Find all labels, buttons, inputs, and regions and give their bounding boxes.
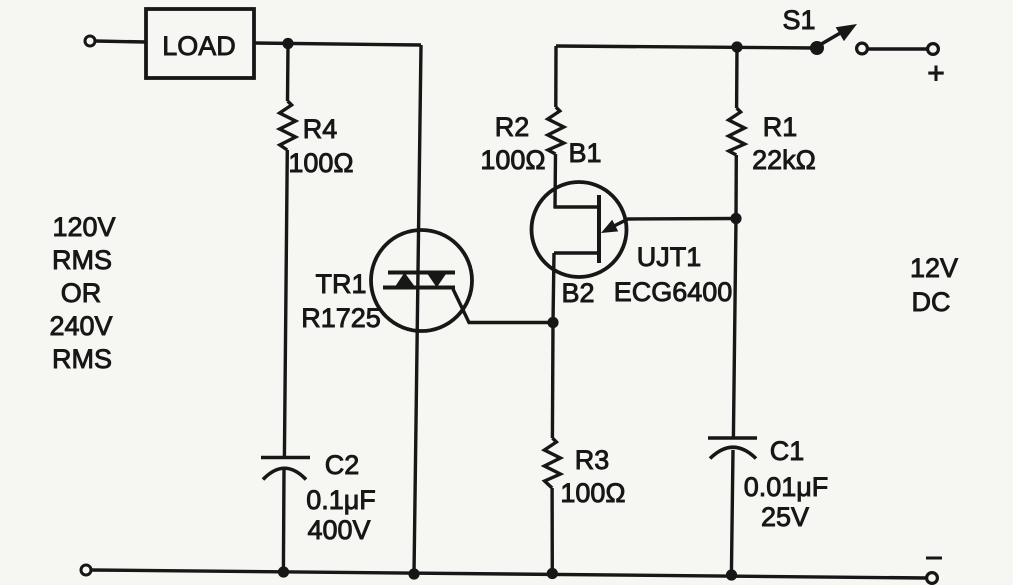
terminal: + DC input <box>928 44 939 55</box>
resistor R4 <box>280 101 354 178</box>
svg-text:UJT1: UJT1 <box>637 242 702 272</box>
wire: R1 top lead <box>735 47 739 108</box>
label: 12V DC <box>910 253 958 317</box>
wire: triac main vertical MT2-MT1 <box>414 45 421 574</box>
wire: R4 to C2 <box>284 150 287 457</box>
wire: C2 to bottom rail <box>282 470 286 572</box>
node: junction gate / B2 / R3 <box>547 317 558 328</box>
label: minus sign <box>926 557 942 560</box>
wire: triac gate to junction <box>453 289 553 323</box>
terminal: AC input top-left <box>85 36 95 46</box>
wire: junction down to C1 <box>733 219 736 438</box>
svg-text:100Ω: 100Ω <box>560 478 625 508</box>
terminal: bottom-right DC return <box>927 573 938 584</box>
wire: UJT emitter to R1 junction <box>612 219 737 228</box>
svg-text:R1: R1 <box>763 112 798 142</box>
node: junction emitter / R1 / C1 branch <box>730 213 741 224</box>
capacitor C2 <box>261 450 376 545</box>
wire: R2 top lead <box>554 46 558 107</box>
wire: bottom rail <box>91 570 927 578</box>
node: junction C1 / bottom rail <box>726 569 737 580</box>
svg-text:100Ω: 100Ω <box>480 145 545 175</box>
node: junction top rail / R1 <box>731 41 742 52</box>
svg-text:120V: 120V <box>52 212 115 242</box>
svg-text:R2: R2 <box>495 112 530 142</box>
svg-text:TR1: TR1 <box>315 269 366 299</box>
capacitor C1 <box>708 436 828 532</box>
svg-text:240V: 240V <box>49 311 112 341</box>
svg-text:100Ω: 100Ω <box>288 148 353 178</box>
svg-text:S1: S1 <box>782 5 815 35</box>
wire: top rail right (R2 top to switch) <box>556 46 817 48</box>
wire: AC terminal to LOAD <box>95 41 146 42</box>
resistor R2 <box>480 107 563 175</box>
load box LOAD <box>146 9 254 78</box>
svg-text:400V: 400V <box>307 515 370 545</box>
emitter arrowhead <box>601 220 618 233</box>
terminal: bottom-left AC return <box>81 565 91 575</box>
svg-text:OR: OR <box>61 278 102 308</box>
svg-text:C2: C2 <box>325 450 360 480</box>
wire: C1 to bottom rail <box>731 450 733 575</box>
wire: R4 top lead <box>286 44 290 101</box>
svg-text:B2: B2 <box>561 278 594 308</box>
resistor R3 <box>544 438 625 508</box>
wire: R3 to bottom rail <box>550 488 554 573</box>
svg-text:DC: DC <box>912 287 951 317</box>
svg-text:LOAD: LOAD <box>162 31 236 61</box>
svg-text:25V: 25V <box>761 502 809 532</box>
svg-text:0.1μF: 0.1μF <box>306 485 376 515</box>
node: junction triac / bottom rail <box>408 568 419 579</box>
label: 120V RMS OR 240V RMS <box>49 212 115 374</box>
triac TR1 R1725 <box>301 230 472 333</box>
svg-text:RMS: RMS <box>52 344 112 374</box>
svg-text:R1725: R1725 <box>301 303 381 333</box>
svg-text:22kΩ: 22kΩ <box>752 145 816 175</box>
svg-text:RMS: RMS <box>52 245 112 275</box>
switch S1 <box>782 5 927 55</box>
svg-text:12V: 12V <box>910 253 958 283</box>
svg-text:R3: R3 <box>575 445 610 475</box>
wire: LOAD to triac top corner <box>254 43 421 45</box>
svg-text:R4: R4 <box>303 114 338 144</box>
node: junction C2 / bottom rail <box>278 566 289 577</box>
wire: R2 to UJT B1 <box>553 154 557 208</box>
wire: R1 to emitter junction <box>734 155 738 219</box>
node: junction LOAD output / R4 top <box>282 38 293 49</box>
svg-text:ECG6400: ECG6400 <box>614 277 733 307</box>
node: junction R3 / bottom rail <box>547 568 558 579</box>
svg-text:C1: C1 <box>770 436 805 466</box>
svg-text:0.01μF: 0.01μF <box>744 472 829 502</box>
svg-text:B1: B1 <box>568 138 601 168</box>
resistor R1 <box>729 108 816 175</box>
wire: junction to R3 <box>551 323 555 439</box>
svg-text:+: + <box>927 57 945 90</box>
ujt U1 UJT1 ECG6400 <box>532 138 733 308</box>
wire: UJT B2 down to gate junction <box>553 253 554 323</box>
